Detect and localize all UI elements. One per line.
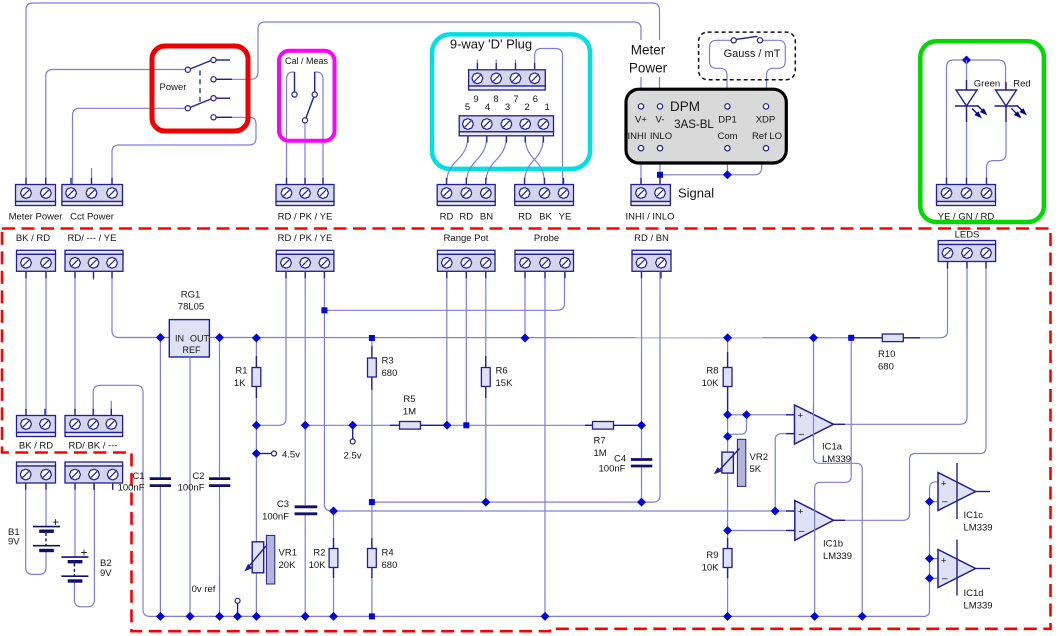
wire rail square down jog to IC1b line to bus bbox=[815, 338, 852, 617]
svg-text:680: 680 bbox=[382, 368, 398, 379]
resistor R7 1M bbox=[585, 422, 642, 460]
svg-text:IC1c: IC1c bbox=[964, 510, 984, 521]
Cal/Meas switch box bbox=[279, 51, 335, 141]
junction signal rail Y1 left square bbox=[369, 499, 375, 505]
junction t3 square bbox=[321, 307, 327, 313]
resistor R10 680 bbox=[853, 334, 920, 373]
wire Probe t1 to 5V rail bbox=[524, 271, 526, 338]
wire Gauss/mT switch right loop to XDP bbox=[763, 40, 785, 106]
op-amp IC1b LM339 bbox=[786, 501, 852, 563]
junction bus VR1 bbox=[252, 612, 261, 621]
junction bus R9 bbox=[723, 612, 732, 621]
junction R1 top bbox=[252, 334, 261, 343]
svg-text:10K: 10K bbox=[702, 378, 720, 389]
wire D-plug pin stub 8 bbox=[495, 60, 497, 70]
wire R1 line 5V to bus with VR1 bbox=[255, 338, 257, 616]
wire battery B2 loop bbox=[74, 483, 94, 607]
row B BK/RD terminal block bbox=[17, 416, 56, 452]
D-plug upper terminal block bbox=[469, 70, 546, 86]
wire wiper hook to R8 line bbox=[728, 415, 747, 436]
op-amp IC1a LM339 bbox=[786, 405, 851, 465]
Cal/Meas blade bbox=[306, 97, 314, 118]
svg-text:680: 680 bbox=[382, 560, 398, 571]
red LED light arrows bbox=[1012, 106, 1026, 118]
junction R8 bottom bbox=[723, 410, 732, 419]
power switch contact 1 bbox=[211, 57, 216, 62]
LED box wires: top rail bbox=[947, 60, 1006, 185]
power switch box bbox=[152, 46, 248, 131]
svg-text:9-way 'D' Plug: 9-way 'D' Plug bbox=[450, 37, 532, 52]
junction Range t2 square bbox=[463, 422, 469, 428]
junction R6 bottom bbox=[481, 498, 490, 507]
row C RD/BK/--- terminal block (battery B2) bbox=[65, 462, 123, 483]
svg-text:LM339: LM339 bbox=[964, 523, 993, 534]
wire Cal/Meas right leg bbox=[315, 72, 323, 185]
red LED D2 bbox=[995, 82, 1018, 122]
svg-text:INLO: INLO bbox=[650, 131, 672, 142]
svg-text:C2: C2 bbox=[192, 471, 204, 482]
Meter Power label (above DPM) bbox=[627, 40, 669, 77]
svg-text:3: 3 bbox=[505, 102, 510, 113]
resistor R4 680 bbox=[368, 538, 398, 578]
capacitor C2 100nF bbox=[178, 471, 231, 494]
svg-text:4.5v: 4.5v bbox=[282, 450, 300, 461]
junction IC1d plus node bbox=[925, 554, 934, 563]
resistor R1 1K bbox=[234, 356, 261, 398]
junction bus right riser bbox=[858, 612, 867, 621]
svg-text:RD/ --- / YE: RD/ --- / YE bbox=[68, 233, 117, 244]
svg-text:6: 6 bbox=[533, 94, 538, 105]
svg-text:–: – bbox=[799, 429, 805, 440]
DPM 3AS-BL module bbox=[626, 89, 786, 163]
junction Probe RD at 5V rail bbox=[521, 334, 530, 343]
Range Pot upper terminal block bbox=[437, 185, 495, 223]
potentiometer VR1 20K bbox=[244, 535, 297, 584]
svg-text:RD / PK / YE: RD / PK / YE bbox=[278, 233, 333, 244]
wire Gauss/mT switch left loop to DP1 bbox=[710, 40, 731, 106]
wire RD/PK/YE t2 down to C3 bbox=[304, 271, 306, 505]
svg-text:1: 1 bbox=[545, 102, 550, 113]
svg-text:Cct Power: Cct Power bbox=[70, 212, 114, 223]
svg-text:V+: V+ bbox=[635, 115, 647, 126]
Signal terminal block bbox=[625, 185, 714, 223]
battery B1 9V bbox=[8, 515, 60, 551]
svg-text:2: 2 bbox=[524, 102, 529, 113]
svg-text:0v ref: 0v ref bbox=[192, 584, 216, 595]
svg-text:20K: 20K bbox=[279, 560, 297, 571]
wire D-plug 4 to Range Pot RD2 bbox=[466, 136, 487, 185]
RG1 regulator 78L05 bbox=[169, 290, 209, 358]
op-amp IC1d LM339 bbox=[938, 540, 993, 612]
svg-text:RD: RD bbox=[459, 212, 473, 223]
svg-text:INHI: INHI bbox=[628, 131, 647, 142]
wire battery B1 loop bbox=[26, 483, 46, 574]
Probe PCB terminal block bbox=[515, 250, 574, 271]
svg-text:IC1a: IC1a bbox=[822, 442, 843, 453]
wire IC1d plus input bbox=[930, 558, 939, 560]
junction INLO link square bbox=[657, 172, 663, 178]
junction bus C1 bbox=[156, 612, 165, 621]
wire IC1a minus input riser bbox=[775, 434, 794, 511]
potentiometer VR2 5K bbox=[714, 439, 768, 486]
LED enclosure box bbox=[920, 41, 1044, 222]
svg-text:YE / GN / RD: YE / GN / RD bbox=[938, 212, 995, 223]
wire R5 to R7 bbox=[420, 424, 592, 426]
junction RG1 IN node bbox=[156, 333, 165, 342]
svg-text:LM339: LM339 bbox=[964, 601, 993, 612]
wire Cal/Meas left leg bbox=[287, 72, 295, 185]
wire power switch contact to DPM V+ bbox=[217, 22, 642, 106]
svg-text:1K: 1K bbox=[234, 378, 246, 389]
wire red LED cathode to RD terminal bbox=[987, 106, 1007, 185]
svg-text:IC1b: IC1b bbox=[823, 539, 843, 550]
wire R2 line bbox=[333, 511, 335, 616]
svg-text:BK: BK bbox=[539, 212, 552, 223]
junction VR2 wiper node bbox=[742, 410, 751, 419]
svg-text:10K: 10K bbox=[702, 563, 720, 574]
wire RD/---/YE t3 to RG1 IN rail bbox=[112, 271, 169, 337]
row C BK/RD terminal block (battery B1) bbox=[17, 462, 56, 483]
svg-text:100nF: 100nF bbox=[262, 512, 289, 523]
DPM pin INLO bbox=[657, 146, 662, 151]
wire RD/PK/YE t1 to R1 bottom node bbox=[256, 271, 286, 425]
YE/GN/RD terminal block bbox=[937, 185, 996, 223]
svg-text:+: + bbox=[81, 546, 88, 560]
BK/RD PCB terminal block bbox=[17, 250, 56, 271]
svg-text:Power: Power bbox=[629, 61, 668, 76]
wire D-plug 2 to Probe BK (crossover) bbox=[525, 136, 544, 185]
svg-text:100nF: 100nF bbox=[118, 483, 145, 494]
svg-text:C1: C1 bbox=[132, 471, 144, 482]
junction R8 top bbox=[723, 333, 732, 342]
DPM pin Com bbox=[725, 146, 730, 151]
svg-text:LEDS: LEDS bbox=[955, 230, 980, 241]
wire Cct Power t2 stub bbox=[91, 168, 93, 185]
resistor R3 680 bbox=[368, 346, 398, 390]
green LED D1 bbox=[955, 80, 978, 122]
svg-text:Meter Power: Meter Power bbox=[9, 212, 63, 223]
Cal/Meas contact right bbox=[314, 72, 316, 92]
svg-text:R4: R4 bbox=[382, 548, 394, 559]
svg-text:5K: 5K bbox=[750, 464, 762, 475]
wire Probe t2 to 0v bus bbox=[544, 271, 546, 616]
svg-text:C3: C3 bbox=[277, 499, 289, 510]
svg-text:78L05: 78L05 bbox=[178, 302, 204, 313]
wire Cal/Meas middle leg bbox=[304, 123, 306, 185]
Probe upper terminal block bbox=[515, 185, 574, 223]
power switch contact 2 bbox=[211, 77, 216, 82]
svg-text:Gauss / mT: Gauss / mT bbox=[724, 48, 781, 60]
svg-text:LM339: LM339 bbox=[823, 551, 852, 562]
wire DPM INHI to Signal t1 bbox=[640, 148, 642, 184]
wire IC1d minus input bbox=[930, 577, 939, 579]
wire Range t3 / R6 line bbox=[485, 271, 487, 502]
svg-text:R1: R1 bbox=[235, 366, 247, 377]
DPM pin V+ bbox=[638, 104, 643, 109]
svg-text:680: 680 bbox=[878, 362, 894, 373]
wire D-plug pin stub 7 bbox=[515, 60, 517, 70]
terminal pin stubs (navy) bbox=[26, 63, 987, 490]
junction bus Probe BK bbox=[541, 612, 550, 621]
junction bus C2 bbox=[215, 612, 224, 621]
svg-text:DP1: DP1 bbox=[718, 115, 736, 126]
RD/BN PCB terminal block bbox=[632, 250, 671, 271]
power switch mechanical link (dashed) bbox=[199, 71, 201, 104]
green LED light arrows bbox=[972, 106, 986, 118]
Cal/Meas contact left bbox=[294, 72, 296, 92]
svg-text:Signal: Signal bbox=[678, 186, 714, 201]
svg-text:VR2: VR2 bbox=[750, 452, 768, 463]
wire RD/---/YE t2 stub bbox=[93, 271, 95, 280]
svg-text:Com: Com bbox=[717, 131, 737, 142]
junction IC1a supply drop bbox=[809, 333, 818, 342]
DPM pin DP1 bbox=[725, 104, 730, 109]
svg-text:+: + bbox=[941, 556, 947, 567]
svg-text:VR1: VR1 bbox=[279, 548, 297, 559]
svg-text:R5: R5 bbox=[403, 394, 415, 405]
svg-text:8: 8 bbox=[493, 94, 498, 105]
wire IC1c minus input bbox=[930, 501, 939, 503]
svg-text:R3: R3 bbox=[382, 356, 394, 367]
node 2.5v tap bbox=[344, 421, 362, 462]
junction bus C3 bbox=[301, 612, 310, 621]
wire D-plug 3 to Range Pot BN bbox=[486, 136, 507, 185]
RD/PK/YE PCB terminal block bbox=[276, 250, 334, 271]
resistor R8 10K bbox=[702, 352, 732, 415]
wire Meter Power t1 to DPM V- (top long wire) bbox=[26, 3, 660, 185]
junction bus IC1b supply bbox=[810, 612, 819, 621]
svg-text:Green: Green bbox=[974, 79, 1000, 90]
junction C3 line at 2.5v rail bbox=[301, 421, 310, 430]
wire row B t3 stub bbox=[110, 401, 112, 416]
svg-text:RD/ BK / ---: RD/ BK / --- bbox=[68, 441, 117, 452]
power switch contact 4 bbox=[211, 115, 216, 120]
svg-text:+: + bbox=[798, 507, 804, 518]
svg-text:Meter: Meter bbox=[631, 43, 666, 58]
DPM pin INHI bbox=[638, 146, 643, 151]
junction IC1b minus node bbox=[723, 526, 732, 535]
junction R10 left square bbox=[848, 335, 854, 341]
svg-text:15K: 15K bbox=[496, 378, 514, 389]
wire C1 line bbox=[159, 338, 161, 478]
svg-text:V-: V- bbox=[656, 115, 665, 126]
svg-text:4: 4 bbox=[485, 102, 490, 113]
wire IC1b output to LED RD bbox=[834, 262, 986, 521]
wire signal rail Y1 bbox=[372, 271, 660, 502]
PCB dashed red border bbox=[2, 229, 1051, 632]
svg-text:Range Pot: Range Pot bbox=[444, 233, 489, 244]
svg-text:R10: R10 bbox=[878, 349, 895, 360]
wire D-plug pin 1 to Probe YE terminal bbox=[535, 49, 563, 186]
resistor R6 15K bbox=[481, 356, 513, 398]
wire row C t3 stub bbox=[112, 483, 114, 490]
junction Com link diamond bbox=[723, 170, 732, 179]
wire C2 line bbox=[219, 338, 221, 478]
svg-text:9: 9 bbox=[473, 94, 478, 105]
wire BK/RD t1 to battery row bbox=[25, 271, 27, 415]
svg-text:Red: Red bbox=[1013, 79, 1030, 90]
svg-text:10K: 10K bbox=[309, 560, 327, 571]
junction R5 right bbox=[443, 421, 452, 430]
resistor R2 10K bbox=[309, 538, 338, 578]
junction rail Y2 left bbox=[329, 507, 338, 516]
svg-text:1M: 1M bbox=[403, 407, 416, 418]
svg-text:–: – bbox=[942, 574, 948, 585]
junction IC1b plus node bbox=[771, 507, 780, 516]
svg-text:REF: REF bbox=[183, 345, 202, 355]
wire 2.5v rail C3 junction to R5 bbox=[305, 424, 400, 426]
node 4.5v tap bbox=[252, 449, 300, 461]
Gauss/mT switch blade and contacts bbox=[737, 36, 758, 39]
wire 5V rail from RG1 OUT to R10 bbox=[209, 337, 881, 339]
wire green LED anode bbox=[966, 60, 968, 90]
svg-text:7: 7 bbox=[513, 94, 518, 105]
svg-text:Cal / Meas: Cal / Meas bbox=[285, 56, 329, 66]
svg-text:IC1d: IC1d bbox=[964, 588, 984, 599]
op-amp IC1c LM339 bbox=[938, 463, 993, 534]
9-way D plug box bbox=[432, 34, 590, 169]
junction RG1 OUT node bbox=[215, 333, 224, 342]
wire R10 to LED YE terminal bbox=[905, 262, 948, 338]
wire DPM INLO to Signal t2 and Com / Ref LO link bbox=[659, 148, 661, 184]
svg-text:100nF: 100nF bbox=[178, 483, 205, 494]
wire D-plug 6 to Probe RD (crossover) bbox=[525, 136, 544, 185]
svg-text:BK / RD: BK / RD bbox=[16, 233, 50, 244]
junction bus 0v ref bbox=[233, 612, 242, 621]
wire IC1a plus input bbox=[728, 414, 795, 416]
wire R3/R4 line bbox=[371, 338, 373, 616]
capacitor C1 100nF bbox=[118, 471, 171, 494]
svg-text:+: + bbox=[941, 479, 947, 490]
svg-text:YE: YE bbox=[559, 212, 572, 223]
wire DPM Com down to link bbox=[726, 148, 728, 175]
svg-text:RG1: RG1 bbox=[181, 290, 201, 301]
Meter Power terminal block bbox=[9, 185, 63, 223]
junction R3 top square bbox=[369, 335, 375, 341]
wire RD/PK/YE t3 down to signal rail bbox=[324, 271, 794, 511]
svg-text:RD / PK / YE: RD / PK / YE bbox=[278, 212, 333, 223]
node 0v ref bbox=[192, 584, 240, 616]
svg-text:R8: R8 bbox=[706, 366, 718, 377]
wire RG1 REF line bbox=[189, 357, 191, 616]
svg-text:Power: Power bbox=[160, 82, 187, 93]
svg-text:RD: RD bbox=[440, 212, 454, 223]
svg-text:R9: R9 bbox=[706, 550, 718, 561]
wire green LED cathode to GN terminal bbox=[966, 106, 968, 185]
svg-text:2.5v: 2.5v bbox=[344, 451, 362, 462]
svg-text:Probe: Probe bbox=[534, 233, 559, 244]
svg-text:INHI / INLO: INHI / INLO bbox=[625, 212, 674, 223]
junction bus R2 bbox=[329, 612, 338, 621]
svg-text:Ref LO: Ref LO bbox=[752, 131, 782, 142]
wire RD/---/YE t1 to battery row bbox=[74, 271, 76, 415]
DPM pin Ref LO bbox=[763, 146, 768, 151]
junction LED anode diamond bbox=[962, 56, 971, 65]
RD/PK/YE upper terminal block bbox=[276, 185, 334, 223]
junction R7 right bbox=[637, 421, 646, 430]
svg-text:+: + bbox=[798, 411, 804, 422]
wire Cct Power t1 to power switch pole 2 bbox=[73, 108, 189, 184]
wire RD/BN t1 / C4 line bbox=[641, 271, 643, 458]
svg-text:R2: R2 bbox=[313, 548, 325, 559]
svg-text:5: 5 bbox=[465, 102, 470, 113]
capacitor C3 100nF bbox=[262, 499, 317, 523]
svg-text:OUT: OUT bbox=[190, 334, 210, 344]
svg-text:LM339: LM339 bbox=[822, 454, 851, 465]
capacitor C4 100nF bbox=[599, 454, 653, 475]
svg-text:R6: R6 bbox=[496, 366, 508, 377]
RD/---/YE PCB terminal block bbox=[65, 250, 123, 271]
battery B2 9V bbox=[61, 546, 112, 582]
svg-text:RD / BN: RD / BN bbox=[634, 233, 669, 244]
svg-text:IN: IN bbox=[175, 334, 184, 344]
svg-text:+: + bbox=[52, 515, 59, 529]
wire row C t2 stub bbox=[93, 483, 95, 490]
Gauss/mT dashed box bbox=[699, 32, 796, 80]
wire BK/RD t2 to battery row bbox=[45, 271, 47, 415]
junction IC1c minus node bbox=[925, 497, 934, 506]
wire rail diamond through IC1a down to bus right jog bbox=[814, 338, 863, 617]
wire D-plug 5 to Range Pot RD bbox=[447, 136, 468, 185]
junction bus REF bbox=[186, 612, 195, 621]
wire Probe YE rail to RD/PK/YE t3 bbox=[324, 271, 564, 310]
D-plug lower terminal block bbox=[459, 116, 553, 132]
wire battery mid bridge to 0v bus bbox=[93, 385, 938, 616]
junction 4.5v rail left bbox=[252, 421, 261, 430]
svg-text:R7: R7 bbox=[594, 436, 606, 447]
junction bus R4 square bbox=[369, 613, 375, 619]
wire Range t2 down bbox=[465, 271, 467, 425]
Cct Power terminal block bbox=[62, 185, 123, 223]
svg-text:BK / RD: BK / RD bbox=[19, 441, 53, 452]
svg-text:9V: 9V bbox=[8, 537, 20, 548]
svg-text:–: – bbox=[799, 526, 805, 537]
svg-text:9V: 9V bbox=[100, 568, 112, 579]
wire R8 line from 5V rail bbox=[727, 338, 729, 616]
junction R8 line hook bbox=[723, 432, 732, 441]
svg-text:100nF: 100nF bbox=[599, 464, 626, 475]
svg-text:–: – bbox=[942, 497, 948, 508]
junction C4 bottom bbox=[637, 498, 646, 507]
svg-text:RD: RD bbox=[518, 212, 532, 223]
power switch contact 3 bbox=[211, 96, 216, 101]
wire IC1b minus input bbox=[728, 530, 795, 532]
wire Meter Power t2 to power switch pole 1 bbox=[46, 70, 187, 185]
wire Cct Power t3 to power switch contact 4 bbox=[112, 117, 256, 184]
wire Range t1 down bbox=[446, 271, 448, 425]
svg-text:DPM: DPM bbox=[670, 99, 700, 114]
resistor R9 10K bbox=[702, 538, 732, 578]
row B RD/BK/--- terminal block bbox=[65, 416, 123, 452]
svg-text:1M: 1M bbox=[594, 448, 607, 459]
svg-text:BN: BN bbox=[480, 212, 493, 223]
wire D-plug pin stub 9 bbox=[476, 60, 478, 70]
DPM pin XDP bbox=[763, 104, 768, 109]
wire IC1a output to LED GN bbox=[834, 262, 968, 425]
power switch pole 1 bbox=[190, 61, 211, 70]
junction IC1d minus node bbox=[925, 574, 934, 583]
svg-text:3AS-BL: 3AS-BL bbox=[674, 119, 714, 131]
resistor R5 1M bbox=[390, 394, 451, 429]
power switch pole 2 bbox=[190, 99, 211, 108]
svg-text:XDP: XDP bbox=[756, 115, 776, 126]
Range Pot PCB terminal block bbox=[438, 250, 496, 271]
DPM pin V- bbox=[657, 104, 662, 109]
LEDS PCB terminal block bbox=[938, 241, 995, 262]
